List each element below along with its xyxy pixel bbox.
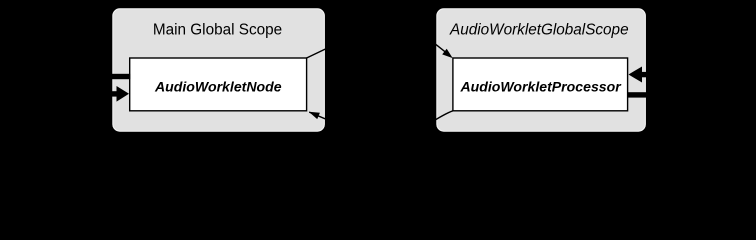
audio output stream bar (left of node) <box>60 74 130 79</box>
svg-text:Main Global Scope: Main Global Scope <box>153 22 282 39</box>
wire node-to-processor (right segment) <box>434 43 448 54</box>
wire processor-to-node (left segment) <box>309 112 332 122</box>
svg-text:AudioWorkletProcessor: AudioWorkletProcessor <box>459 79 622 95</box>
audio output stream bar (right of processor) <box>628 92 710 97</box>
arrowhead into AudioWorkletNode <box>309 112 320 119</box>
svg-text:AudioWorkletGlobalScope: AudioWorkletGlobalScope <box>449 22 629 39</box>
audio input stream arrow (into processor) <box>640 72 710 77</box>
AudioWorkletNode box <box>130 58 307 111</box>
AudioWorkletGlobalScope box <box>437 9 646 131</box>
AudioWorkletProcessor box <box>453 58 628 111</box>
Main Global Scope box <box>113 9 325 131</box>
svg-text:AudioWorkletNode: AudioWorkletNode <box>154 79 282 95</box>
wire processor-to-node (right segment) <box>429 111 453 124</box>
arrowhead into AudioWorkletProcessor <box>442 49 453 58</box>
wire node-to-processor (left segment) <box>307 45 333 58</box>
audio input stream arrow (into node) <box>60 91 118 96</box>
